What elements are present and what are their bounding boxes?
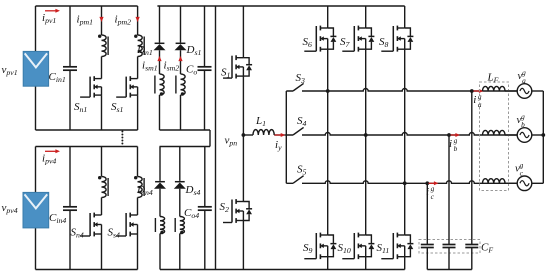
svg-text:i: i [473,94,476,106]
wire LF a to source [505,90,517,92]
switch S5 [286,176,303,184]
PV module PV4 [23,192,49,228]
wire Sn4 column [101,147,103,270]
wire S9 source [327,257,329,270]
ac source v_a [517,84,532,99]
capacitor CF a [465,244,478,246]
PV module PV1 leads [35,6,37,130]
transistor S1 [236,57,243,59]
node v_pn [242,133,246,137]
inductor secondary Ls4b [180,217,185,234]
wire CF bottom rail [427,269,472,271]
wire Ds4 column [179,147,181,270]
PV module PV1 [23,51,48,86]
svg-text:a: a [522,76,526,85]
current arrow i_pm1 [99,17,103,22]
current arrow i_pv4 [45,150,57,152]
wire S1 source to node [242,76,244,135]
current arrow i_sm2 [178,56,182,61]
wire column S6-S9 [327,49,329,235]
wire S7 drain [365,6,367,28]
wire phase row b [302,133,517,136]
wire CF column b [448,135,450,270]
diode Dn4 [155,181,165,183]
wire v_b to neutral [532,134,544,136]
capacitor Co [198,66,212,68]
inductor primary Lm1 [102,35,107,57]
wire middle bottom rail [160,269,405,271]
capacitor Co4 leads [204,147,206,270]
wire LF c to source [505,182,517,184]
transistor S6 [320,27,327,29]
wire selector column [285,91,287,183]
inductor LF phase a [483,86,506,91]
wire Sn1 column [101,6,103,130]
wire bus step [209,130,211,147]
capacitor CF b [443,244,456,246]
PV module PV4 leads [35,147,37,270]
transistor S11 [397,234,404,236]
filter box CF [419,240,480,254]
capacitor Cin4 leads [69,147,71,270]
transistor Sn4 [94,214,101,216]
inductor primary Lm2 [138,35,143,57]
capacitor CF c [421,244,434,246]
inductor secondary Ls2 [181,74,186,95]
node row a filter tap [470,89,474,93]
ac source v_c [517,176,532,191]
transistor S2 [236,201,243,203]
wire secondary bottom bus cell1 [160,129,211,131]
current arrow i_y [275,134,283,136]
transistor S7 [358,27,365,29]
wire S11 source [404,257,406,270]
current arrow i_sm1 [157,56,161,61]
node row b filter tap [447,133,451,137]
wire dc link rail [215,6,217,270]
current arrow i_pm2 [136,17,140,22]
node row c filter tap [425,181,429,185]
diode Ds1 [176,42,186,44]
inductor LF phase c [483,179,506,184]
wire middle top rail [157,5,404,7]
module repetition dots [121,131,123,133]
wire S2 drain [242,135,244,202]
switch S3 [286,83,303,91]
current arrow i_c [429,182,436,184]
capacitor Cin1 leads [69,6,71,130]
wire CF column a [471,91,473,270]
transistor Sn1 [94,78,101,80]
svg-text:b: b [521,120,525,129]
wire v_a to neutral [532,90,544,92]
wire phase row a [302,89,517,92]
wire column S8-S11 [404,49,406,235]
inductor primary Lm4a [102,177,107,198]
node row b column 2 [364,133,368,137]
wire S2 source [242,221,244,270]
wire cell1 top rail [36,5,138,7]
capacitor Cin1 [63,66,77,68]
wire S10 source [365,257,367,270]
wire node to L1 [243,134,253,136]
wire LF b to source [505,134,517,136]
wire Dn4 column [159,147,161,270]
svg-text:b: b [454,144,458,153]
inductor LF phase b [483,130,506,135]
wire S1 drain [242,6,244,58]
node row c column 3 [403,181,407,185]
node row a column 1 [326,89,330,93]
wire L1 to switch column [274,134,286,136]
current arrow i_pv1 [45,10,57,12]
inductor L1 [253,130,274,135]
transistor S10 [358,234,365,236]
wire S6 drain [327,6,329,28]
transistor S9 [320,234,327,236]
inductor secondary Ls4a [160,217,165,234]
current arrow i_b [451,134,458,136]
ac source v_b [517,128,532,143]
wire Ss1 column [137,6,139,130]
wire neutral rail [542,91,544,183]
wire column S7-S10 [365,49,367,235]
wire cell4 bottom rail [36,269,138,271]
filter box LF [480,82,509,191]
transistor Ss4 [130,214,137,216]
wire v_c to neutral [532,182,544,184]
inductor primary Lm4b [138,177,143,198]
wire Ds1 column [180,6,182,130]
wire Ss4 column [137,147,139,270]
transistor S8 [397,27,404,29]
wire secondary top bus cell4 [160,146,211,148]
capacitor Co4 [198,206,212,208]
wire CF column c [426,183,428,269]
node neutral [541,133,545,137]
capacitor Co leads [204,6,206,130]
wire cell4 top rail [36,146,138,148]
wire Dn1 column [159,6,161,130]
current arrow i_a [474,90,481,92]
capacitor Cin4 [63,206,77,208]
diode Ds4 [175,181,185,183]
switch S4 [286,127,303,135]
wire S8 drain [404,6,406,28]
diode Dn1 [155,42,165,44]
wire phase row c [302,181,517,184]
inductor secondary Ls1 [160,74,165,95]
transistor Ss1 [130,78,137,80]
wire cell1 bottom rail [36,129,138,131]
